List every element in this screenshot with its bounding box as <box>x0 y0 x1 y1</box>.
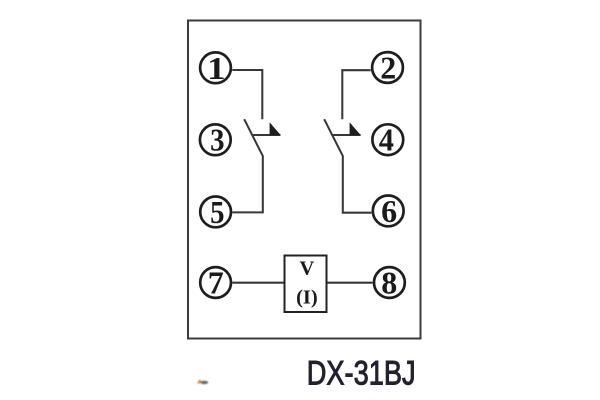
svg-text:7: 7 <box>208 265 224 301</box>
svg-text:V: V <box>299 258 314 280</box>
svg-text:6: 6 <box>381 193 397 229</box>
svg-text:4: 4 <box>379 122 395 158</box>
svg-text:DX-31BJ: DX-31BJ <box>307 353 416 392</box>
svg-text:1: 1 <box>207 51 225 86</box>
svg-text:3: 3 <box>210 122 224 158</box>
svg-text:8: 8 <box>381 265 397 301</box>
svg-text:(I): (I) <box>296 287 318 309</box>
svg-text:2: 2 <box>380 50 396 86</box>
svg-text:5: 5 <box>210 195 224 231</box>
